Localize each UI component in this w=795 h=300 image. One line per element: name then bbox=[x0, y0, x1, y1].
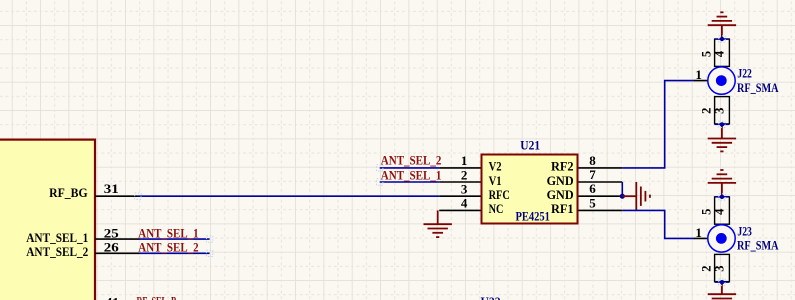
wire ANT_SEL_1 to U21 pin 2 bbox=[380, 181, 440, 183]
svg-text:2: 2 bbox=[461, 167, 468, 182]
wire stub ANT_SEL_2 bbox=[140, 252, 210, 254]
svg-text:41: 41 bbox=[106, 294, 119, 300]
J22 coax circle bbox=[708, 67, 735, 94]
svg-text:8: 8 bbox=[589, 153, 596, 168]
svg-text:5: 5 bbox=[589, 195, 596, 210]
U21 pin 5 line bbox=[579, 209, 623, 211]
U21 pin 6 line bbox=[579, 195, 623, 197]
svg-text:4: 4 bbox=[461, 196, 468, 211]
U21 pin 4 line bbox=[439, 209, 480, 211]
svg-text:3: 3 bbox=[461, 182, 468, 197]
U21 pin 1 line bbox=[439, 167, 480, 169]
J23 bottom shield node bbox=[715, 281, 729, 283]
wire U21 pin7 to pin6 bbox=[621, 182, 623, 196]
svg-text:ANT_SEL_1: ANT_SEL_1 bbox=[26, 230, 88, 245]
junction node GND bbox=[620, 194, 625, 199]
svg-text:ANT_SEL_2: ANT_SEL_2 bbox=[138, 239, 198, 254]
J22 bottom shield node bbox=[715, 123, 729, 125]
svg-text:RF_BG: RF_BG bbox=[49, 185, 88, 200]
wire U21 pin8 to J22 bbox=[622, 81, 694, 168]
svg-text:V2: V2 bbox=[489, 160, 502, 174]
svg-text:RF_SMA: RF_SMA bbox=[737, 238, 779, 253]
svg-text:U21: U21 bbox=[520, 138, 540, 153]
power port GND at U21 pin 4 bbox=[424, 210, 452, 237]
svg-text:RF_SMA: RF_SMA bbox=[737, 80, 779, 95]
svg-text:4: 4 bbox=[713, 208, 727, 215]
svg-text:5: 5 bbox=[699, 209, 713, 215]
U21 pin 2 line bbox=[439, 181, 480, 183]
power port GND above J22 bbox=[708, 12, 736, 39]
wire RF_BG (pin31 to U21 RFC) bbox=[138, 195, 439, 197]
U21 pin 3 line bbox=[439, 195, 480, 197]
svg-text:3: 3 bbox=[713, 108, 727, 114]
svg-text:3: 3 bbox=[713, 265, 727, 271]
svg-text:RF_SEL_B: RF_SEL_B bbox=[137, 294, 177, 300]
svg-text:ANT_SEL_1: ANT_SEL_1 bbox=[381, 167, 442, 182]
wire stub ANT_SEL_1 bbox=[140, 238, 210, 240]
U21 pin 8 line bbox=[579, 167, 623, 169]
pin 25 (ANT_SEL_1) bbox=[95, 238, 140, 240]
power port GND (sideways) bbox=[622, 182, 650, 210]
svg-text:RF1: RF1 bbox=[551, 202, 574, 216]
sheet symbol (RF block) bbox=[0, 140, 95, 300]
wire U21 pin5 to J23 bbox=[622, 210, 694, 238]
J23 shield rect pins 5/4 bbox=[715, 197, 730, 224]
op IC U21 body bbox=[482, 155, 578, 224]
svg-text:GND: GND bbox=[547, 174, 574, 188]
svg-text:PE4251: PE4251 bbox=[515, 208, 550, 223]
J22 top shield node bbox=[715, 38, 729, 40]
J22 pin 1 line bbox=[694, 80, 718, 82]
svg-text:1: 1 bbox=[461, 153, 468, 168]
J23 coax circle bbox=[708, 225, 735, 252]
svg-text:25: 25 bbox=[104, 225, 120, 240]
pin 26 (ANT_SEL_2) bbox=[95, 252, 140, 254]
svg-text:2: 2 bbox=[699, 265, 713, 271]
svg-text:4: 4 bbox=[713, 50, 727, 57]
svg-text:2: 2 bbox=[699, 108, 713, 114]
J22 shield rect pins 2/3 bbox=[715, 97, 730, 124]
svg-text:J22: J22 bbox=[737, 66, 752, 81]
svg-text:V1: V1 bbox=[489, 174, 502, 188]
J22 shield rect pins 5/4 bbox=[715, 39, 730, 66]
wire ANT_SEL_2 to U21 pin 1 bbox=[380, 167, 440, 169]
svg-text:5: 5 bbox=[699, 51, 713, 57]
svg-text:ANT_SEL_1: ANT_SEL_1 bbox=[138, 225, 198, 240]
J23 shield rect pins 2/3 bbox=[715, 254, 730, 281]
power port GND above J23 bbox=[708, 170, 736, 197]
pin 31 (RF_BG) bbox=[95, 195, 138, 197]
power port GND below J23 bbox=[708, 282, 736, 300]
connector J22 (RF_SMA) bbox=[694, 37, 779, 127]
svg-text:1: 1 bbox=[695, 67, 702, 82]
svg-text:31: 31 bbox=[104, 181, 119, 196]
J23 pin 1 line bbox=[694, 237, 718, 239]
svg-text:7: 7 bbox=[589, 167, 596, 182]
svg-text:1: 1 bbox=[695, 225, 702, 240]
svg-text:26: 26 bbox=[104, 239, 120, 254]
svg-text:RF2: RF2 bbox=[551, 160, 574, 174]
U21 pin 7 line bbox=[579, 181, 623, 183]
svg-text:ANT_SEL_2: ANT_SEL_2 bbox=[381, 153, 442, 168]
svg-text:U22: U22 bbox=[481, 294, 501, 300]
svg-text:RFC: RFC bbox=[489, 188, 510, 202]
svg-text:6: 6 bbox=[589, 181, 596, 196]
svg-text:ANT_SEL_2: ANT_SEL_2 bbox=[26, 244, 88, 259]
svg-text:NC: NC bbox=[489, 202, 504, 216]
connector J23 (RF_SMA) bbox=[694, 195, 779, 285]
power port GND below J22 bbox=[708, 124, 736, 151]
node marker at pin31/wire junction bbox=[135, 36, 726, 286]
svg-text:GND: GND bbox=[547, 188, 574, 202]
svg-text:J23: J23 bbox=[737, 224, 752, 239]
J23 top shield node bbox=[715, 196, 729, 198]
